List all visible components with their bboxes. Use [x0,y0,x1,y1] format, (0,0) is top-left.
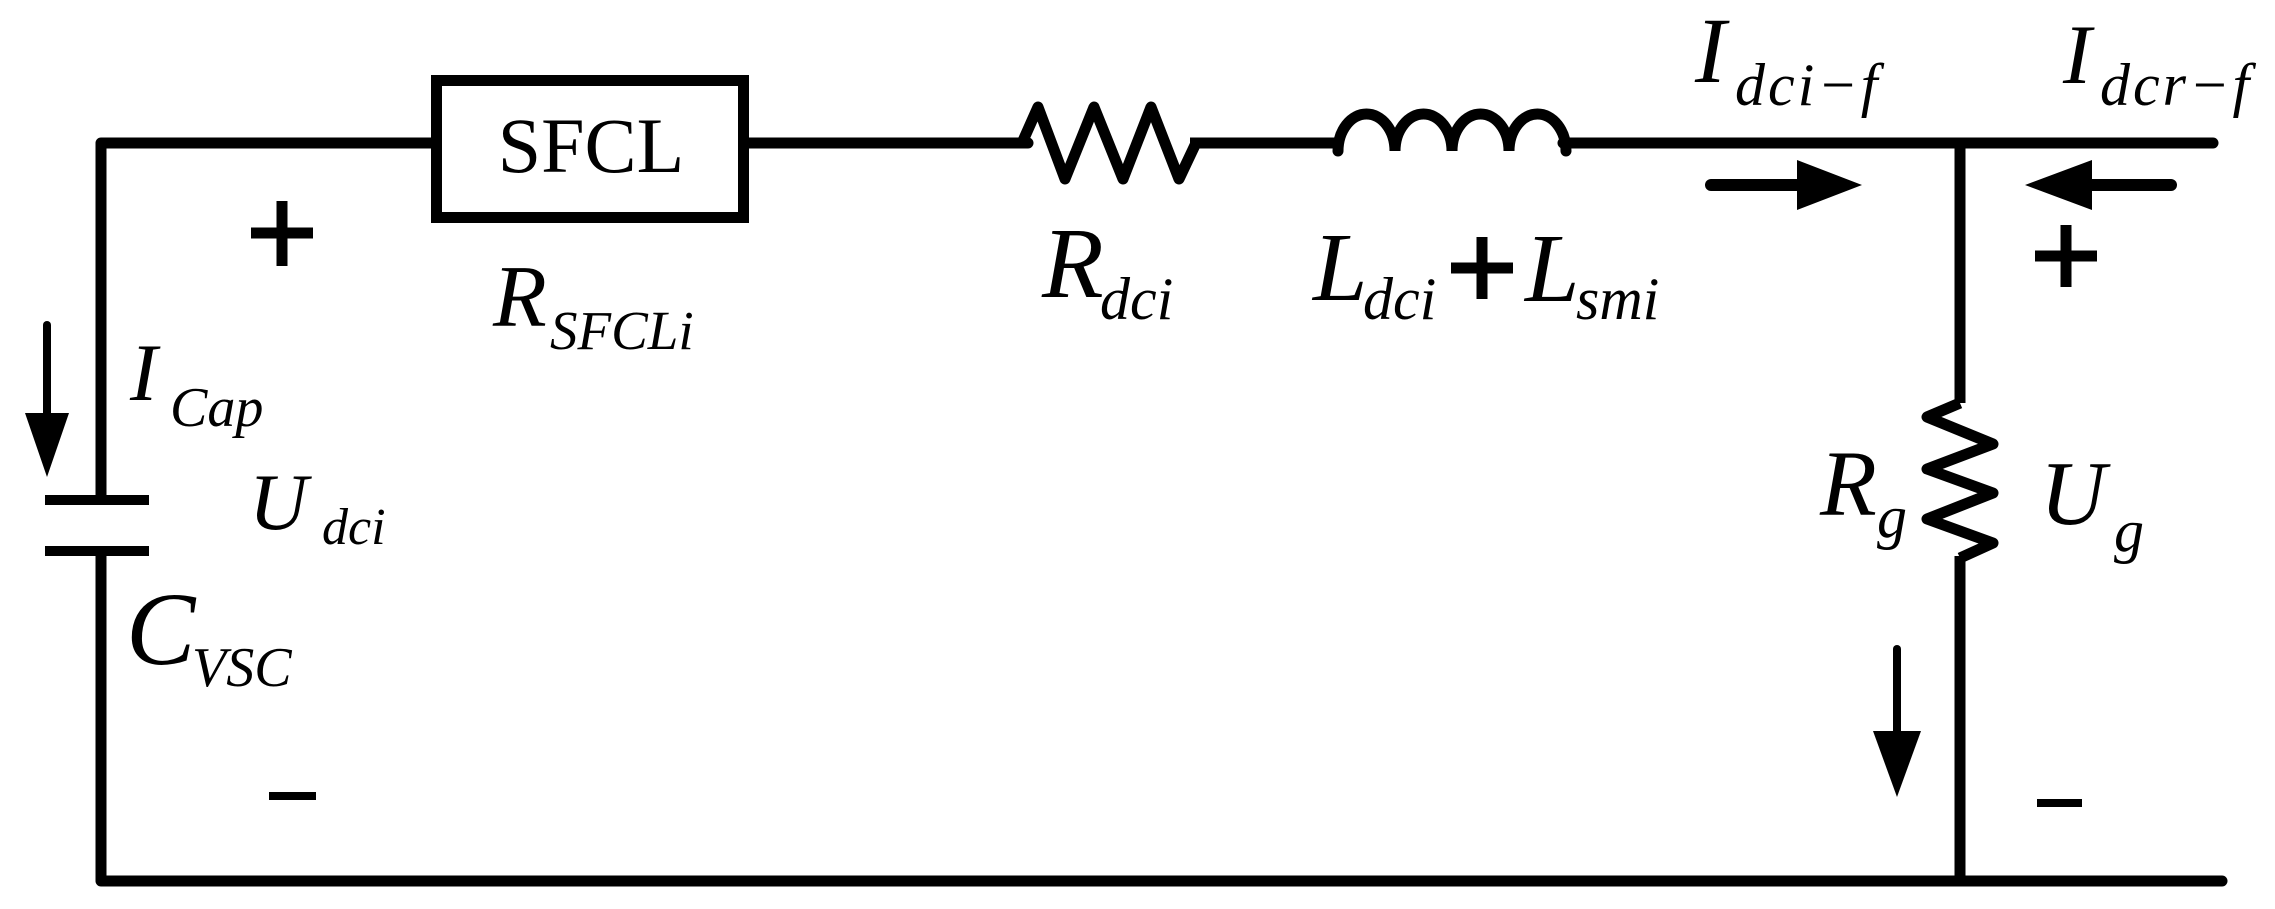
wire right vertical upper [1955,143,1966,403]
wire bottom horizontal [101,876,2222,887]
capacitor C_VSC plate bottom [45,546,149,556]
svg-text:smi: smi [1576,266,1659,332]
plus sign in label L_dci + L_smi [1451,237,1513,299]
inductor L_dci + L_smi [1338,114,1566,151]
svg-text:dci: dci [1363,266,1436,332]
svg-text:L: L [1311,214,1368,322]
resistor R_g zigzag [1927,403,1993,558]
wire top right of inductor [1563,138,2213,149]
wire right vertical lower [1955,556,1966,881]
arrow I_dci-f current [1711,179,1800,191]
minus sign left [269,792,316,800]
wire top horizontal [101,138,1028,149]
svg-text:dci: dci [1100,266,1173,332]
svg-text:I: I [129,327,161,418]
SFCL box [437,81,744,218]
minus sign right [2037,799,2082,807]
svg-text:g: g [2114,498,2144,564]
svg-text:Cap: Cap [170,377,263,439]
wire left vertical [96,143,107,497]
svg-text:C: C [126,572,197,687]
svg-text:I: I [1694,0,1730,103]
arrow U_g direction [1893,649,1901,738]
svg-text:dcr−f: dcr−f [2100,52,2256,118]
svg-text:R: R [492,249,547,346]
svg-text:SFCLi: SFCLi [550,300,694,361]
svg-text:U: U [249,457,312,547]
svg-text:R: R [1819,433,1877,536]
svg-text:dci: dci [322,499,386,556]
plus sign left [251,201,313,266]
svg-text:L: L [1523,215,1580,323]
capacitor C_VSC plate top [45,495,149,505]
svg-text:dci−f: dci−f [1735,52,1885,118]
wire top between resistor and inductor [1190,138,1340,149]
svg-text:g: g [1877,484,1907,550]
svg-text:R: R [1041,207,1104,319]
arrow I_dcr-f current [2090,179,2171,191]
svg-text:SFCL: SFCL [498,102,684,189]
svg-text:VSC: VSC [192,637,292,699]
arrow I_Cap [43,325,51,420]
wire left vertical lower [96,553,107,881]
svg-text:I: I [2062,8,2095,102]
svg-text:U: U [2040,443,2111,544]
plus sign right [2035,225,2097,287]
resistor R_dci zigzag [1022,107,1196,179]
